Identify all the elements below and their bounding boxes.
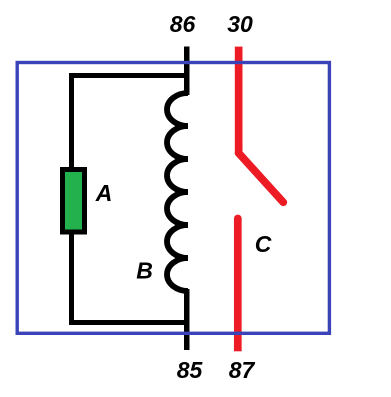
svg-text:85: 85 [177, 357, 204, 383]
svg-text:87: 87 [229, 357, 256, 383]
svg-text:C: C [255, 231, 272, 257]
svg-text:86: 86 [170, 11, 196, 37]
svg-text:B: B [136, 258, 153, 284]
svg-text:A: A [95, 180, 113, 206]
svg-text:30: 30 [227, 11, 253, 37]
